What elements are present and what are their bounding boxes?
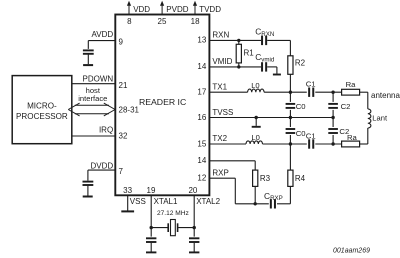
svg-text:VSS: VSS [130, 197, 146, 206]
svg-text:9: 9 [119, 38, 124, 47]
svg-text:XTAL2: XTAL2 [196, 197, 220, 206]
svg-text:R1: R1 [244, 49, 255, 58]
svg-text:READER IC: READER IC [139, 97, 186, 107]
svg-text:TX2: TX2 [212, 134, 227, 143]
svg-text:19: 19 [147, 186, 156, 195]
svg-text:Lant: Lant [372, 113, 388, 122]
svg-text:RXN: RXN [212, 31, 229, 40]
svg-text:R3: R3 [260, 174, 271, 183]
svg-text:13: 13 [197, 36, 206, 45]
svg-text:IRQ: IRQ [99, 126, 113, 135]
svg-text:PDOWN: PDOWN [83, 74, 114, 83]
svg-text:RXP: RXP [212, 169, 228, 178]
svg-text:C1: C1 [306, 132, 316, 141]
svg-text:L0: L0 [251, 133, 259, 142]
svg-text:R2: R2 [295, 58, 306, 67]
svg-text:AVDD: AVDD [92, 30, 114, 39]
svg-text:TX1: TX1 [212, 82, 227, 91]
svg-text:17: 17 [197, 88, 206, 97]
svg-text:MICRO-: MICRO- [27, 101, 57, 110]
svg-text:Ra: Ra [346, 80, 357, 89]
svg-text:VMID: VMID [212, 57, 232, 66]
svg-text:PROCESSOR: PROCESSOR [16, 112, 68, 121]
svg-text:20: 20 [188, 186, 197, 195]
svg-text:Ra: Ra [347, 133, 358, 142]
svg-text:L0: L0 [251, 81, 259, 90]
svg-text:14: 14 [197, 62, 206, 71]
svg-text:8: 8 [127, 17, 132, 26]
svg-text:C2: C2 [341, 102, 351, 111]
svg-text:12: 12 [197, 174, 206, 183]
svg-text:28-31: 28-31 [119, 106, 140, 115]
svg-text:R4: R4 [295, 174, 306, 183]
svg-text:antenna: antenna [371, 91, 400, 100]
svg-text:15: 15 [197, 139, 206, 148]
svg-text:16: 16 [197, 113, 206, 122]
svg-text:C1: C1 [306, 79, 316, 88]
svg-text:VDD: VDD [133, 5, 150, 14]
svg-text:TVSS: TVSS [212, 108, 233, 117]
svg-text:interface: interface [78, 94, 107, 103]
svg-text:32: 32 [119, 132, 128, 141]
svg-text:TVDD: TVDD [199, 5, 221, 14]
svg-text:001aam269: 001aam269 [333, 247, 370, 254]
svg-text:XTAL1: XTAL1 [154, 197, 178, 206]
svg-text:33: 33 [123, 186, 132, 195]
svg-text:DVDD: DVDD [91, 161, 114, 170]
svg-text:PVDD: PVDD [166, 5, 188, 14]
svg-text:27.12 MHz: 27.12 MHz [157, 210, 189, 217]
svg-text:25: 25 [158, 17, 167, 26]
svg-text:C0: C0 [296, 129, 306, 138]
svg-text:18: 18 [191, 17, 200, 26]
svg-text:21: 21 [119, 81, 128, 90]
svg-text:C0: C0 [296, 102, 306, 111]
svg-text:14: 14 [197, 156, 206, 165]
svg-text:7: 7 [119, 167, 124, 176]
